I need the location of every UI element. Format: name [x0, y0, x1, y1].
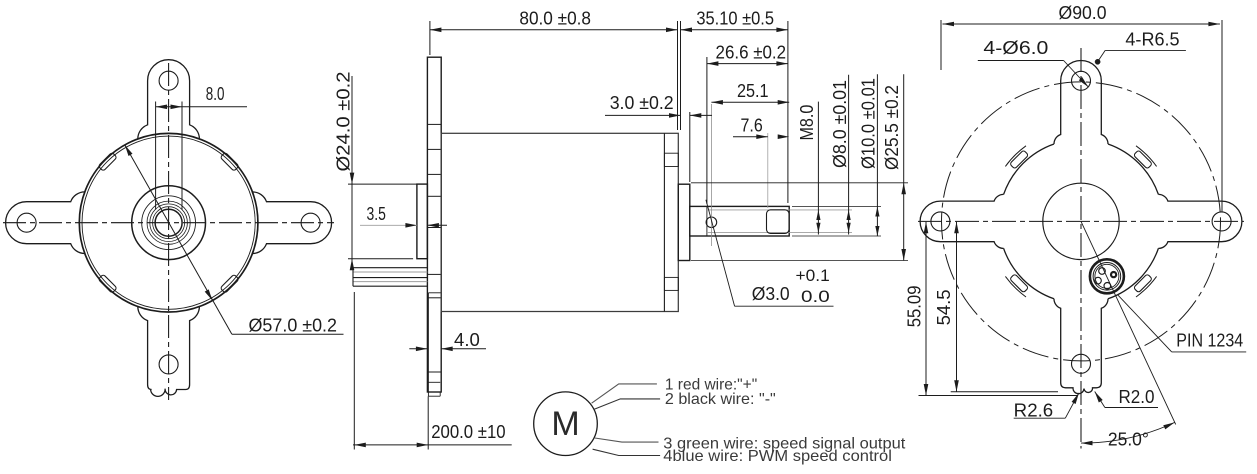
svg-text:M8.0: M8.0	[797, 105, 817, 141]
svg-text:Ø57.0 ±0.2: Ø57.0 ±0.2	[249, 316, 338, 336]
side view wire bundle	[353, 268, 427, 287]
label 4-R6.5 text	[1125, 29, 1179, 49]
dimension M8.0 text	[797, 105, 817, 141]
∅3.0 leader line	[706, 200, 834, 306]
svg-text:0.0: 0.0	[801, 287, 830, 306]
label R2.0 text	[1119, 387, 1155, 407]
shaft diameter extension lines	[691, 183, 908, 261]
connector pin 3	[1095, 277, 1102, 284]
rear view flange arc NW	[1004, 144, 1054, 194]
dimension 3.0 line	[605, 113, 712, 118]
dimension ∅10.0 text	[859, 78, 879, 169]
label PIN 1234 text	[1176, 331, 1243, 351]
dimension 8.0 text	[206, 84, 225, 104]
rear view right tab hole (∅6)	[1212, 212, 1231, 231]
svg-text:M: M	[551, 405, 579, 443]
dimension 54.5 line	[954, 222, 959, 392]
dimension 200.0 extension lines	[354, 292, 428, 450]
dimension 25.0° arc	[1081, 422, 1175, 445]
label 4-∅6.0 leader	[978, 61, 1089, 88]
wiring motor symbol letter M	[551, 405, 579, 443]
dimension 7.6 text	[741, 116, 763, 136]
wire lead 4	[593, 449, 661, 455]
dimension 25.1 text	[737, 81, 769, 101]
rear view bottom tab hole (∅6)	[1072, 354, 1091, 373]
dimension 8.0 line and arrows	[156, 105, 247, 110]
svg-text:3.0 ±0.2: 3.0 ±0.2	[610, 93, 674, 113]
svg-text:200.0 ±10: 200.0 ±10	[431, 422, 505, 442]
side view end-cap crimp top	[664, 153, 678, 166]
dimension 3.0 extension line	[689, 112, 691, 182]
rear view vent slot 4	[1133, 146, 1156, 169]
side view rear boss (∅25.5)	[678, 184, 690, 260]
dimension 80.0 line	[430, 28, 678, 33]
wire label 4	[663, 448, 892, 465]
dimension 3.5 text	[367, 204, 386, 224]
rear view top tab hole (∅6)	[1072, 71, 1091, 90]
front view inner ring circle 2	[147, 201, 190, 244]
svg-text:2 black wire: "-": 2 black wire: "-"	[665, 391, 776, 408]
svg-text:54.5: 54.5	[934, 289, 954, 325]
dimension ∅24.0 text	[334, 72, 354, 172]
front view top mounting tab	[138, 60, 200, 139]
svg-text:4blue wire: PWM speed control: 4blue wire: PWM speed control	[663, 448, 892, 465]
svg-text:80.0 ±0.8: 80.0 ±0.8	[519, 9, 591, 29]
rear view flange arc SW	[1004, 248, 1054, 298]
dimension 7.6 extension line	[767, 133, 769, 208]
side view flange edge marks	[427, 124, 441, 372]
svg-text:Ø24.0 ±0.2: Ø24.0 ±0.2	[334, 72, 354, 172]
rear view center boss circle (∅25.5)	[1043, 183, 1119, 259]
svg-text:35.10 ±0.5: 35.10 ±0.5	[696, 9, 774, 29]
dimension 80.0 extension lines	[430, 21, 678, 130]
diameter 57.0 leader line	[125, 145, 344, 334]
dimension 80.0 text	[519, 9, 591, 29]
front view vent slot 4	[220, 152, 239, 171]
front view right mounting tab	[252, 192, 331, 254]
dimension ∅24.0 line	[350, 76, 355, 270]
rear view vent slot 1	[1133, 274, 1156, 297]
dimension ∅24.0 extension lines	[348, 184, 417, 259]
dimension ∅10.0 line	[875, 74, 879, 236]
dimension 7.6 line	[733, 134, 789, 139]
dimension 25.0° text	[1108, 430, 1149, 450]
dimension 35.10 extension lines	[681, 21, 788, 203]
rear view connector inner rings	[1093, 263, 1121, 291]
svg-text:PIN 1234: PIN 1234	[1176, 331, 1243, 351]
front view inner ring circle 4	[153, 207, 185, 239]
rear view bottom tab with notch	[1054, 299, 1108, 394]
front view inner ring circle 3	[150, 204, 188, 242]
svg-text:Ø90.0: Ø90.0	[1059, 3, 1107, 23]
rear view bolt circle ∅90 (dashed)	[942, 82, 1221, 361]
label R2.6 text	[1014, 401, 1053, 421]
front view bottom mounting tab with notch	[138, 307, 200, 397]
svg-text:3.5: 3.5	[367, 204, 386, 224]
side view thread start line	[706, 206, 708, 236]
svg-text:Ø3.0: Ø3.0	[752, 284, 790, 304]
dimension 35.10 text	[696, 9, 774, 29]
∅3.0 text	[752, 266, 830, 306]
front view left tab hole	[17, 213, 36, 232]
svg-text:4-Ø6.0: 4-Ø6.0	[983, 38, 1048, 58]
dimension 200.0 text	[431, 422, 505, 442]
wiring motor symbol circle	[534, 392, 598, 456]
wire label 2	[665, 391, 776, 408]
side view flange lower stub	[428, 293, 441, 396]
dimension ∅25.5 line	[901, 74, 906, 260]
front view bottom tab hole	[159, 355, 178, 374]
svg-text:25.0°: 25.0°	[1108, 430, 1149, 450]
dimension ∅90.0 line	[943, 22, 1220, 27]
side view hole centerline	[710, 104, 712, 246]
svg-text:Ø8.0 ±0.01: Ø8.0 ±0.01	[830, 80, 850, 168]
side view shaft flat detail	[767, 210, 790, 234]
side view end-cap crimp bottom	[664, 277, 678, 290]
svg-text:26.6 ±0.2: 26.6 ±0.2	[716, 43, 787, 63]
side view front boss (∅24 hub)	[417, 184, 428, 259]
front view bearing boss circle (∅24)	[132, 186, 206, 260]
dimension ∅8.0 text	[830, 80, 850, 168]
rear view left tab	[920, 194, 1004, 248]
dimension 8.0 extension lines	[156, 102, 182, 210]
svg-text:55.09: 55.09	[905, 286, 925, 328]
svg-text:+0.1: +0.1	[796, 266, 830, 285]
front view shaft circle (∅8)	[155, 209, 182, 236]
front view left mounting tab	[6, 192, 85, 254]
wire lead 1	[592, 384, 657, 403]
connector pin 4	[1104, 283, 1111, 290]
front view motor body outer circle (∅57)	[79, 133, 258, 312]
dimension 26.6 extension line	[706, 57, 708, 204]
dimension 26.6 line	[707, 61, 788, 66]
side view cross hole (∅3)	[706, 217, 717, 228]
front view vertical centerline	[168, 63, 170, 400]
side view motor body	[441, 133, 678, 311]
rear view 25° reference line	[1081, 221, 1176, 424]
dimension ∅8.0 line	[847, 75, 851, 235]
svg-text:4.0: 4.0	[454, 330, 480, 350]
dimension 54.5 extension line	[951, 391, 1058, 393]
rear view right tab	[1158, 194, 1242, 248]
front view right tab hole	[301, 213, 320, 232]
wire label 1	[665, 377, 757, 394]
rear view left tab hole (∅6)	[931, 212, 950, 231]
side view mounting flange plate	[427, 57, 441, 392]
rear view vertical centerline	[1080, 48, 1082, 449]
front view horizontal centerline	[3, 222, 334, 224]
wire lead 2	[594, 399, 660, 410]
rear view vent slot 2	[1005, 274, 1028, 297]
rear view flange arc NE	[1108, 144, 1158, 194]
svg-text:Ø25.5 ±0.2: Ø25.5 ±0.2	[882, 85, 902, 170]
svg-text:7.6: 7.6	[741, 116, 763, 136]
dimension M8.0 line	[816, 102, 820, 235]
label R2.0 leader	[1095, 392, 1158, 408]
front view vent slot 1	[220, 274, 239, 293]
rear view flange arc SE	[1108, 248, 1158, 298]
label PIN 1234 leader	[1118, 295, 1246, 352]
front view vent slot 3	[98, 152, 117, 171]
dimension ∅25.5 text	[882, 85, 902, 170]
dimension 3.0 text	[610, 93, 674, 113]
svg-text:R2.0: R2.0	[1119, 387, 1155, 407]
svg-text:R2.6: R2.6	[1014, 401, 1053, 421]
rear view horizontal centerline	[918, 220, 1244, 222]
dimension 55.09 line	[924, 222, 929, 396]
connector pin 2 (marked)	[1110, 271, 1116, 277]
side view shaft outline	[690, 206, 789, 236]
svg-text:25.1: 25.1	[737, 81, 769, 101]
dimension ∅90.0 extension lines	[941, 20, 1222, 212]
rear view vent slot 3	[1005, 146, 1028, 169]
dimension 54.5 text	[934, 289, 954, 325]
svg-text:8.0: 8.0	[206, 84, 225, 104]
dimension 4.0 line	[409, 347, 486, 352]
dimension 200.0 line	[353, 443, 512, 448]
front view top tab hole	[159, 71, 178, 90]
front view inner ring circle 1	[142, 196, 196, 250]
svg-text:Ø10.0 ±0.01: Ø10.0 ±0.01	[859, 78, 879, 169]
rear view top tab	[1054, 60, 1108, 144]
wire lead 3	[595, 438, 659, 442]
label 4-R6.5 leader	[1095, 50, 1186, 64]
dimension 55.09 extension line	[919, 395, 1078, 397]
dimension 25.1 line	[711, 100, 789, 105]
side view thread minor lines (gray)	[707, 210, 852, 233]
label R2.6 leader	[1014, 393, 1079, 418]
dimension 26.6 text	[716, 43, 787, 63]
rear view connector outer ring	[1090, 259, 1124, 293]
dimension 3.5 line	[360, 223, 447, 228]
wire label 3	[663, 435, 906, 452]
label 4-∅6.0 text	[983, 38, 1048, 58]
dimension 4.0 text	[454, 330, 480, 350]
dimension 55.09 text	[905, 286, 925, 328]
svg-text:4-R6.5: 4-R6.5	[1125, 29, 1179, 49]
front view vent slot 2	[98, 274, 117, 293]
dimension 35.10 line	[681, 28, 788, 33]
connector pin 1	[1099, 268, 1106, 275]
diameter 57.0 text	[249, 316, 338, 336]
dimension ∅90.0 text	[1059, 3, 1107, 23]
side view end-cap seam	[663, 133, 665, 311]
